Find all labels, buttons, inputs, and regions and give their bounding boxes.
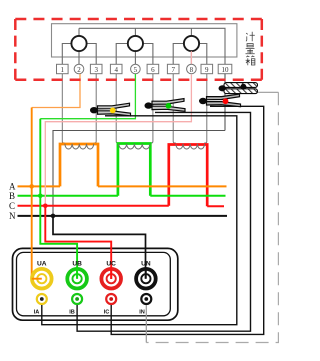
wire: fuse C output to IC (black current loop) [111, 106, 264, 334]
terminal 6 [147, 64, 159, 74]
svg-text:C: C [9, 201, 15, 211]
svg-text:N: N [9, 211, 16, 221]
meter element A (circle) [71, 36, 86, 51]
svg-text:2: 2 [77, 66, 81, 74]
CT C secondary coil [176, 144, 205, 149]
metering box boundary (red dashed) [15, 19, 261, 80]
CT B secondary coil [119, 144, 150, 149]
wire: terminal 1 to CT A secondary [62, 74, 65, 143]
wire: C voltage tap terminal 8 to bus (pink) [45, 75, 191, 206]
wire: terminal 6 to CT B secondary [150, 74, 153, 143]
wire: A voltage tap bus to terminal 2 and UA (orange) [32, 74, 80, 108]
terminal 5 [131, 64, 141, 74]
wire: terminal 4 to CT B secondary [116, 74, 119, 143]
terminal UN [136, 261, 156, 289]
svg-text:3: 3 [94, 66, 98, 74]
junction: N bus tap [51, 214, 56, 219]
svg-text:UA: UA [37, 261, 47, 268]
wire: element C voltage drop terminal 8 [190, 28, 192, 64]
wire: element B current path terminals 4-6 [116, 44, 153, 65]
svg-text:B: B [9, 191, 15, 201]
meter box (inner enclosure rectangle) [52, 24, 237, 57]
CT C primary (red) [169, 145, 207, 207]
fuse FU-A (yellow) [90, 103, 131, 116]
svg-text:IB: IB [69, 310, 75, 316]
wire: meter neutral bus to terminal 10 [79, 28, 225, 64]
terminal 1 [57, 64, 69, 74]
terminal 8 [187, 64, 197, 74]
wire: fuse N output to IN (gray, dashed) [250, 91, 278, 93]
terminal IN [139, 294, 151, 316]
terminal UA [32, 261, 52, 289]
glyph 箱 [246, 56, 255, 66]
wire: terminal 9 to CT C secondary [204, 74, 207, 143]
junction: C bus tap [43, 204, 48, 209]
wire: fuse B output to IB (black current loop) [77, 112, 250, 331]
junction: A bus tap [29, 184, 34, 189]
svg-text:5: 5 [134, 66, 138, 74]
terminal IB [69, 294, 82, 316]
calibrator inner case line [17, 252, 171, 315]
wire: element B voltage drop terminal 5 [134, 28, 136, 64]
bus C (red) [18, 205, 225, 207]
terminal 4 [110, 64, 122, 74]
fuse FU-C (red) [199, 94, 241, 107]
CT B primary (green) [118, 144, 150, 196]
svg-text:UB: UB [72, 261, 82, 268]
bus A (orange) [18, 185, 227, 187]
svg-text:UN: UN [141, 261, 151, 268]
terminal UC [101, 261, 121, 289]
terminal 3 [90, 64, 102, 74]
terminal 7 [167, 64, 179, 74]
wire: element C current path terminals 7-9 [173, 44, 207, 65]
wire: UC jack entry (red over ring) [110, 268, 112, 280]
calibrator outer case [13, 248, 178, 320]
svg-text:9: 9 [205, 66, 209, 74]
wire: neutral link row to N bus [53, 131, 225, 216]
svg-text:4: 4 [114, 66, 118, 74]
wire: UN jack entry (black over ring) [145, 268, 147, 279]
wire: pink stub above terminal 8 [190, 51, 192, 64]
glyph 量 [246, 44, 255, 54]
CT A primary (orange) [60, 144, 98, 186]
wire: UB jack entry (green over ring) [76, 268, 78, 279]
wire: UA jack entry (orange over ring) [32, 278, 42, 280]
svg-text:UC: UC [106, 261, 116, 268]
wire: terminal 3 to CT A secondary [94, 74, 97, 143]
wire: N tap bus to UN (black) [53, 216, 146, 279]
terminal UB [67, 261, 87, 289]
terminal 9 [201, 64, 213, 74]
wire: element A current path terminals 1-3 [62, 44, 96, 65]
terminal IA [34, 294, 47, 316]
fuse FU-N (hatched neutral) [219, 83, 258, 94]
meter element B (circle) [128, 36, 143, 51]
wire: fuse A output to IA (black current loop) [42, 116, 237, 325]
svg-text:10: 10 [222, 66, 230, 74]
fuse FU-B (green) [145, 99, 186, 112]
svg-text:IN: IN [139, 310, 145, 316]
svg-text:6: 6 [151, 66, 155, 74]
glyph 计 [246, 32, 255, 41]
terminal 2 [74, 64, 84, 74]
bus B (green) [18, 195, 226, 197]
wire: terminal 7 to CT C secondary [173, 74, 176, 143]
wire: element A voltage drop terminal 2 [78, 28, 80, 64]
meter element C (circle) [184, 36, 199, 51]
terminal IC [104, 294, 116, 316]
bus N (black) [18, 215, 228, 217]
junction: B bus tap [38, 194, 43, 199]
svg-text:1: 1 [61, 66, 65, 74]
svg-text:8: 8 [190, 66, 194, 74]
wire: C voltage tap bus to UC (red) [45, 206, 111, 279]
label 计量箱 (metering box), drawn glyphs [246, 32, 255, 65]
svg-text:IA: IA [34, 310, 40, 316]
svg-text:7: 7 [171, 66, 175, 74]
svg-text:IC: IC [104, 310, 110, 316]
wire: B voltage tap bus to terminal 5 and UB (green) [40, 74, 135, 119]
wire: terminal 10 down to neutral link [224, 74, 226, 131]
CT A secondary coil [65, 144, 94, 149]
terminal 10 [218, 64, 232, 74]
